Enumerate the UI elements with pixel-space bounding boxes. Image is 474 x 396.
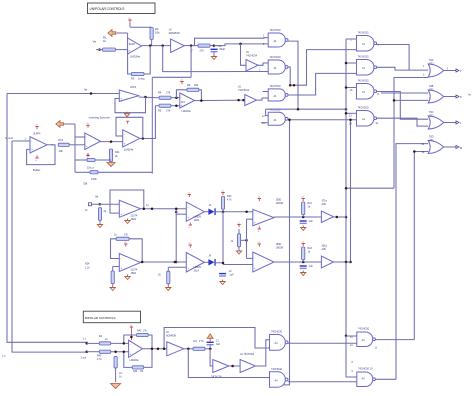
svg-text:R44: R44	[133, 370, 138, 373]
svg-text:13: 13	[350, 337, 353, 339]
svg-text:3L5: 3L5	[181, 101, 186, 104]
svg-text:-: -	[124, 133, 125, 136]
svg-text:HT1: HT1	[429, 114, 434, 118]
svg-text:.1uF: .1uF	[229, 274, 234, 277]
svg-text:1 out: 1 out	[81, 356, 87, 360]
svg-text:J4: J4	[209, 255, 212, 258]
svg-text:74CHC04: 74CHC04	[238, 89, 250, 92]
svg-text:HT1: HT1	[429, 62, 434, 66]
svg-text:-: -	[121, 257, 122, 260]
svg-text:hs: hs	[468, 93, 471, 97]
svg-text:8: 8	[378, 93, 380, 96]
svg-text:Inverting Summer: Inverting Summer	[89, 116, 110, 120]
svg-text:10k: 10k	[155, 31, 160, 35]
svg-text:-: -	[254, 213, 255, 216]
svg-text:Va: Va	[93, 40, 97, 44]
svg-text:A05: A05	[322, 248, 327, 251]
svg-text:10k: 10k	[59, 149, 64, 153]
svg-text:-: -	[254, 256, 255, 259]
svg-text:13: 13	[349, 115, 352, 118]
svg-text:Buffer: Buffer	[33, 168, 40, 172]
svg-text:M: M	[460, 146, 462, 150]
svg-text:70C: 70C	[429, 110, 434, 114]
svg-text:2.7k: 2.7k	[97, 358, 102, 361]
svg-text:R3: R3	[131, 77, 135, 81]
svg-text:74CHC04: 74CHC04	[246, 55, 258, 58]
svg-text:5k: 5k	[87, 155, 90, 158]
svg-text:JU 74CHC04: JU 74CHC04	[240, 353, 255, 356]
svg-text:Va: Va	[95, 195, 99, 199]
svg-text:3uF: 3uF	[216, 343, 221, 346]
svg-text:8: 8	[352, 362, 354, 364]
svg-text:74CHC00: 74CHC00	[270, 56, 282, 59]
svg-text:74CHC00: 74CHC00	[271, 368, 283, 371]
svg-text:L: L	[460, 121, 462, 125]
svg-text:1k: 1k	[119, 375, 122, 378]
svg-text:J1: J1	[85, 209, 88, 212]
svg-text:2.7k: 2.7k	[199, 340, 204, 343]
svg-text:R24: R24	[85, 263, 90, 266]
svg-text:74CHC00: 74CHC00	[271, 331, 283, 334]
svg-text:-5: -5	[188, 227, 191, 229]
svg-text:1k: 1k	[105, 338, 108, 341]
svg-text:J1: J1	[231, 240, 234, 243]
svg-text:74CHC00: 74CHC00	[270, 29, 282, 32]
svg-text:LM324s: LM324s	[124, 148, 134, 152]
svg-text:-: -	[130, 344, 131, 347]
svg-text:9: 9	[352, 371, 354, 373]
svg-text:74CHC00: 74CHC00	[270, 85, 282, 88]
svg-text:R4: R4	[158, 91, 162, 95]
svg-text:100k: 100k	[91, 177, 97, 181]
svg-text:-: -	[121, 92, 122, 95]
svg-text:HT1: HT1	[429, 138, 434, 142]
svg-text:J5: J5	[158, 274, 161, 277]
svg-text:J10: J10	[193, 340, 198, 343]
svg-text:R4: R4	[99, 335, 103, 338]
svg-text:J51D: J51D	[131, 218, 137, 221]
svg-text:HT1: HT1	[429, 88, 434, 92]
svg-text:-: -	[86, 136, 87, 139]
svg-text:.1uF: .1uF	[308, 220, 313, 223]
svg-text:-: -	[181, 96, 182, 99]
svg-text:J01A: J01A	[194, 270, 200, 273]
svg-text:12: 12	[262, 115, 265, 118]
svg-text:74CHC00: 74CHC00	[358, 107, 370, 110]
svg-text:-: -	[31, 140, 32, 143]
svg-text:J7k: J7k	[143, 330, 148, 333]
svg-text:BIPOLAR CONTROLS: BIPOLAR CONTROLS	[85, 316, 116, 320]
svg-text:1k: 1k	[103, 39, 107, 43]
svg-text:J4: J4	[209, 204, 212, 207]
svg-text:70A: 70A	[429, 58, 434, 62]
svg-text:J7k: J7k	[140, 370, 145, 373]
svg-text:20k: 20k	[194, 83, 199, 87]
svg-text:4.7k: 4.7k	[227, 199, 232, 202]
svg-text:-: -	[188, 206, 189, 209]
svg-text:K: K	[460, 95, 462, 99]
svg-text:AD548JN: AD548JN	[166, 335, 177, 338]
svg-text:74CHC00 10: 74CHC00 10	[358, 368, 373, 371]
svg-text:27k: 27k	[166, 109, 171, 113]
svg-text:UNIPOLAR CONTROLS: UNIPOLAR CONTROLS	[90, 7, 125, 11]
svg-text:74CHC00: 74CHC00	[358, 32, 370, 35]
svg-text:1A: 1A	[350, 344, 353, 347]
svg-text:27k: 27k	[200, 49, 205, 53]
svg-text:R43: R43	[137, 330, 142, 333]
svg-text:2k: 2k	[104, 210, 107, 213]
svg-text:27k: 27k	[166, 91, 171, 95]
svg-text:-5: -5	[35, 160, 38, 162]
svg-text:1_o: 1_o	[2, 355, 7, 358]
svg-text:A05: A05	[322, 203, 327, 206]
svg-text:-: -	[188, 257, 189, 260]
svg-text:R6: R6	[187, 83, 191, 87]
svg-text:1: 1	[263, 35, 265, 38]
svg-text:JU: JU	[169, 28, 172, 32]
svg-text:.1uF: .1uF	[308, 265, 313, 268]
svg-text:74CHC00: 74CHC00	[358, 328, 370, 331]
svg-text:1k: 1k	[114, 234, 117, 237]
svg-text:1A: 1A	[350, 89, 353, 92]
svg-text:2k: 2k	[115, 155, 118, 158]
svg-text:LM324s: LM324s	[130, 55, 141, 59]
svg-text:70B: 70B	[429, 84, 434, 88]
svg-text:LM339: LM339	[276, 247, 284, 250]
svg-text:R5: R5	[158, 109, 162, 113]
svg-text:11: 11	[375, 348, 378, 350]
svg-text:1meg: 1meg	[138, 77, 145, 81]
svg-text:74CHC00: 74CHC00	[358, 80, 370, 83]
svg-text:R11: R11	[115, 151, 120, 154]
svg-text:2: 2	[423, 74, 425, 77]
svg-text:LPF4: LPF4	[130, 85, 137, 89]
svg-text:1k: 1k	[308, 251, 311, 254]
svg-text:33k: 33k	[83, 182, 88, 186]
svg-text:1: 1	[25, 138, 27, 141]
svg-text:10k_a: 10k_a	[87, 167, 94, 170]
svg-text:27k: 27k	[124, 234, 129, 237]
svg-text:J4: J4	[146, 204, 149, 207]
svg-text:C_out1: C_out1	[5, 137, 14, 140]
svg-text:J: J	[460, 69, 462, 73]
svg-text:-5: -5	[257, 231, 260, 233]
svg-text:1+: 1+	[83, 337, 86, 341]
svg-text:LM324s: LM324s	[182, 109, 192, 113]
svg-text:3LPF4: 3LPF4	[33, 133, 41, 136]
svg-text:J01B: J01B	[194, 219, 200, 222]
svg-text:3L5P: 3L5P	[129, 42, 135, 46]
svg-text:1k: 1k	[308, 206, 311, 209]
svg-text:70D: 70D	[429, 135, 434, 139]
svg-text:11: 11	[376, 122, 379, 125]
svg-text:R10: R10	[59, 139, 64, 142]
svg-text:74CHC00: 74CHC00	[358, 56, 370, 59]
svg-text:1: 1	[423, 65, 425, 68]
svg-text:1.1k: 1.1k	[85, 267, 90, 270]
svg-text:-: -	[121, 204, 122, 207]
svg-text:LM339: LM339	[276, 202, 284, 205]
svg-text:AD548JN: AD548JN	[169, 31, 180, 35]
svg-text:Va: Va	[84, 88, 88, 92]
svg-text:J51D: J51D	[131, 272, 137, 275]
svg-text:LM324s: LM324s	[130, 358, 140, 362]
